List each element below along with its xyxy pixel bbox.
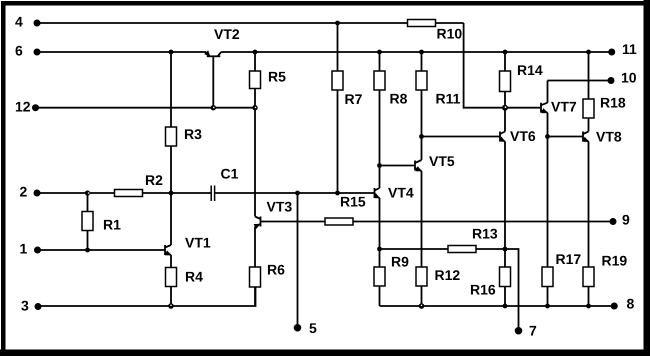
svg-text:VT3: VT3 (267, 199, 293, 215)
svg-text:C1: C1 (221, 166, 239, 182)
svg-text:VT1: VT1 (185, 235, 211, 251)
svg-text:R7: R7 (345, 91, 363, 107)
svg-text:5: 5 (309, 320, 317, 336)
svg-text:R11: R11 (436, 91, 461, 107)
svg-text:6: 6 (15, 43, 23, 59)
svg-text:R18: R18 (600, 95, 626, 111)
svg-text:9: 9 (622, 212, 630, 228)
svg-text:VT2: VT2 (214, 26, 240, 42)
svg-text:10: 10 (621, 70, 637, 86)
svg-text:R6: R6 (267, 262, 285, 278)
svg-text:R10: R10 (437, 26, 463, 42)
svg-text:R8: R8 (390, 91, 408, 107)
svg-text:11: 11 (622, 41, 637, 57)
svg-text:R14: R14 (517, 62, 543, 78)
svg-text:R3: R3 (184, 126, 202, 142)
svg-text:R12: R12 (435, 267, 461, 283)
svg-text:R5: R5 (268, 69, 286, 85)
svg-text:R1: R1 (103, 217, 121, 233)
svg-text:8: 8 (627, 296, 635, 312)
svg-text:3: 3 (21, 298, 29, 314)
svg-text:1: 1 (20, 241, 28, 257)
svg-text:R4: R4 (185, 269, 203, 285)
svg-text:R15: R15 (340, 194, 366, 210)
svg-text:R17: R17 (556, 251, 582, 267)
svg-text:R16: R16 (470, 282, 496, 298)
svg-text:VT8: VT8 (596, 129, 622, 145)
svg-text:R13: R13 (472, 226, 498, 242)
svg-text:R19: R19 (602, 253, 628, 269)
svg-text:VT5: VT5 (429, 153, 455, 169)
svg-text:2: 2 (20, 184, 28, 200)
svg-text:VT4: VT4 (388, 185, 414, 201)
svg-text:4: 4 (15, 14, 23, 30)
svg-text:VT6: VT6 (510, 128, 536, 144)
svg-text:VT7: VT7 (551, 99, 577, 115)
svg-text:12: 12 (15, 99, 31, 115)
svg-text:R2: R2 (145, 172, 163, 188)
svg-text:R9: R9 (391, 254, 409, 270)
svg-text:7: 7 (529, 323, 537, 339)
